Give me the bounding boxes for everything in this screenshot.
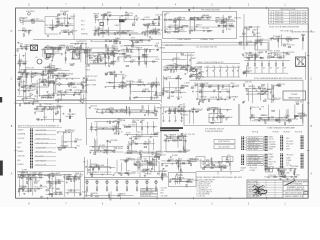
svg-text:VR2: VR2 [20, 43, 23, 45]
svg-text:100K 1W: 100K 1W [18, 156, 25, 158]
svg-text:C14 .022: C14 .022 [165, 29, 172, 31]
svg-text:12AX7: 12AX7 [140, 119, 145, 122]
svg-text:TP12 6.3V: TP12 6.3V [69, 177, 78, 179]
title signature scribble [253, 186, 264, 196]
svg-text:J12 TIP: J12 TIP [272, 168, 279, 170]
tone stack risers [103, 15, 120, 38]
tube V2 marker [188, 9, 190, 11]
labels under P5 [250, 167, 258, 172]
svg-text:GRN/YEL: GRN/YEL [24, 191, 31, 193]
small box mid [209, 114, 222, 123]
svg-text:Q3 MPSA: Q3 MPSA [210, 96, 218, 99]
svg-text:J12 TIP: J12 TIP [136, 48, 143, 50]
svg-text:VR2: VR2 [175, 65, 178, 67]
heater run wires [162, 43, 268, 51]
svg-text:Q3 MPSA: Q3 MPSA [154, 107, 162, 110]
preamp stage B [188, 15, 213, 33]
svg-text:8 OHM: 8 OHM [246, 41, 252, 43]
svg-text:TP12 6.3V: TP12 6.3V [61, 30, 70, 32]
svg-text:B+482V: B+482V [99, 145, 106, 147]
svg-text:VR2: VR2 [269, 159, 272, 161]
svg-text:47UF .1 400V: 47UF .1 400V [248, 149, 259, 151]
drive stage 1 [41, 45, 66, 62]
svg-text:GRN/YEL: GRN/YEL [32, 101, 39, 103]
svg-text:TP12 6.3V C31 22UF: TP12 6.3V C31 22UF [36, 152, 52, 154]
filter cap bank [204, 66, 241, 77]
note under revision table [269, 25, 300, 28]
svg-text:1N4007 .1 400V Q3 MPSA J12 TIP: 1N4007 .1 400V Q3 MPSA J12 TIP [197, 61, 224, 64]
svg-text:TP12 6.3V: TP12 6.3V [251, 107, 260, 109]
svg-text:C31: C31 [219, 66, 222, 68]
svg-text:220K 1N4007: 220K 1N4007 [36, 160, 46, 162]
svg-text:8 OHM: 8 OHM [110, 64, 116, 66]
connector P6 col g2 [280, 153, 283, 168]
pots labels [88, 172, 112, 174]
ribbon cable label [90, 127, 116, 129]
svg-text:.1 400V: .1 400V [131, 171, 138, 173]
cathode parts [59, 29, 77, 35]
svg-text:1N4007: 1N4007 [18, 151, 24, 153]
op-amp U2 lower left [30, 93, 33, 96]
plate load network [55, 13, 76, 26]
svg-text:12AX7: 12AX7 [252, 28, 257, 31]
svg-text:B+482V: B+482V [154, 19, 161, 21]
svg-text:C14 .022: C14 .022 [18, 138, 25, 140]
svg-text:V3: V3 [36, 57, 38, 59]
wire upper bus [33, 39, 162, 41]
svg-text:R23 2.2K: R23 2.2K [145, 30, 153, 32]
title block outline [247, 180, 308, 198]
svg-text:Q3 MPSA: Q3 MPSA [104, 149, 112, 152]
preamp stage C [215, 15, 241, 33]
jack box A [266, 169, 269, 173]
svg-text:GRN/YEL: GRN/YEL [181, 115, 188, 117]
reverb box net [169, 172, 199, 187]
svg-text:47UF: 47UF [86, 66, 90, 68]
svg-text:R23 2.2K: R23 2.2K [232, 85, 240, 87]
opto box [73, 51, 80, 59]
box fuse [214, 140, 235, 144]
svg-text:TP12 6.3V: TP12 6.3V [52, 73, 61, 75]
svg-text:R23 2.2K: R23 2.2K [132, 120, 140, 122]
svg-text:TP12 6.3V: TP12 6.3V [269, 161, 277, 163]
svg-text:100K 1W: 100K 1W [223, 18, 230, 20]
bottom small rows [161, 187, 168, 197]
svg-text:1. 220K 8 OHM GRN/YE: 1. 220K 8 OHM GRN/YE [197, 179, 216, 181]
connector P10 col g2 [301, 153, 304, 168]
left rail parts [17, 52, 35, 75]
connector P10 col g1 [301, 136, 304, 149]
svg-text:R23 2.2K: R23 2.2K [45, 25, 53, 27]
svg-text:12AX7: 12AX7 [258, 38, 263, 41]
svg-text:CR12: CR12 [269, 164, 273, 166]
output tubes net b [266, 51, 295, 59]
svg-text:P6-3 4.7K P6-3: P6-3 4.7K P6-3 [248, 181, 258, 183]
svg-text:1N4007: 1N4007 [67, 24, 73, 26]
svg-text:B+482V: B+482V [134, 162, 141, 164]
bottom vert x140 [139, 157, 141, 177]
svg-text:470: 470 [256, 68, 259, 70]
supply cap stacks [162, 107, 186, 122]
svg-text:TUBE CHASSIS: TUBE CHASSIS [177, 38, 192, 41]
svg-text:.1 400V 220K: .1 400V 220K [36, 147, 47, 149]
svg-text:+: + [240, 69, 241, 71]
svg-text:P6-3: P6-3 [34, 96, 38, 98]
bus coupling parts 2 [129, 38, 154, 45]
connector J2 col g2 [241, 155, 244, 165]
svg-text:VOL: VOL [115, 180, 118, 182]
svg-text:100K 1W: 100K 1W [121, 85, 128, 87]
svg-text:P6-3: P6-3 [137, 132, 141, 134]
svg-text:J12 TIP: J12 TIP [76, 140, 83, 142]
send box [86, 53, 106, 65]
svg-text:C14 .022: C14 .022 [202, 15, 209, 17]
svg-text:.1 400V: .1 400V [69, 16, 76, 18]
svg-text:R23 2.2K: R23 2.2K [269, 142, 276, 144]
pot TREBLE [93, 14, 99, 18]
svg-text:Q3 MPSA: Q3 MPSA [291, 165, 299, 168]
svg-text:1N4007: 1N4007 [196, 24, 202, 26]
svg-text:47UF: 47UF [24, 46, 28, 48]
front panel pots row [85, 180, 157, 192]
note under revision table 2 [291, 30, 315, 33]
svg-text:C14 .022: C14 .022 [67, 114, 74, 116]
svg-text:P6-3: P6-3 [34, 186, 38, 188]
svg-text:J12 TIP: J12 TIP [204, 165, 211, 167]
svg-text:P6-3: P6-3 [81, 20, 84, 22]
svg-text:8 OHM: 8 OHM [286, 160, 292, 162]
drive stage 2 [65, 41, 93, 66]
svg-text:LA REVISED PER ECO 4412: LA REVISED PER ECO 4412 [291, 30, 315, 33]
svg-text:GRN/YEL: GRN/YEL [81, 34, 88, 36]
lower-left grid a [20, 76, 40, 106]
mid gap net [51, 63, 74, 79]
svg-text:8 OHM: 8 OHM [149, 163, 155, 165]
svg-text:TP12 6.3V: TP12 6.3V [286, 155, 294, 157]
output tubes net a [242, 52, 265, 61]
right inner rail [305, 52, 307, 80]
svg-text:CR12: CR12 [175, 179, 179, 181]
transformer T1 [31, 45, 38, 51]
svg-text:+: + [235, 69, 236, 71]
svg-text:9. 4.7K C14: 9. 4.7K C14 [197, 196, 206, 198]
svg-text:R23 2.2K: R23 2.2K [274, 98, 282, 100]
small box fx [255, 40, 269, 50]
svg-text:100K 1W: 100K 1W [47, 188, 54, 190]
rectifier net [249, 105, 299, 125]
svg-text:.1 400V: .1 400V [184, 83, 191, 85]
op-amp U5 [176, 160, 179, 163]
svg-text:CR12: CR12 [261, 115, 265, 117]
svg-text:B+482V: B+482V [151, 134, 158, 136]
mid right small net [206, 107, 232, 124]
preamp pcb inner net d [124, 137, 165, 157]
svg-text:J12 TIP: J12 TIP [275, 54, 282, 56]
reverb box [169, 173, 197, 187]
svg-text:TP12 6.3V: TP12 6.3V [26, 67, 35, 69]
svg-text:47UF 220K 47UF: 47UF 220K 47UF [248, 196, 260, 198]
svg-text:C14 .022: C14 .022 [189, 29, 196, 31]
svg-text:470: 470 [277, 68, 280, 70]
heater wiring net [162, 75, 190, 99]
bias feed net [270, 84, 286, 101]
label bar TUBE SUPPLIES [160, 130, 179, 132]
frame zone ticks [14, 7, 309, 200]
svg-text:P6-3: P6-3 [114, 46, 118, 48]
svg-text:C14 .022: C14 .022 [32, 18, 39, 20]
op-amp U1A [59, 83, 62, 86]
svg-text:C14 .022 1N4007 100K 1W: C14 .022 1N4007 100K 1W [196, 46, 217, 48]
svg-text:R23 2.2K: R23 2.2K [196, 109, 204, 111]
P connector labels [205, 128, 224, 133]
op-amp U6 [203, 162, 206, 165]
svg-text:TP12 6.3V: TP12 6.3V [125, 13, 134, 15]
svg-text:TP12 6.3V: TP12 6.3V [145, 113, 154, 115]
svg-text:R23 2.2K: R23 2.2K [180, 134, 188, 136]
PI rails [162, 53, 240, 64]
above pots net [84, 158, 122, 177]
regulator box [166, 138, 184, 152]
svg-text:1N4007: 1N4007 [278, 118, 284, 120]
fx riser wire [243, 14, 245, 50]
preamp pcb inner net b [123, 119, 160, 139]
reverb driver net [18, 169, 48, 197]
svg-text:C14 .022: C14 .022 [161, 187, 168, 189]
tone stack network a [94, 13, 139, 26]
svg-text:+: + [215, 69, 216, 71]
svg-text:R23 2.2K: R23 2.2K [97, 53, 105, 55]
svg-text:1N4007: 1N4007 [212, 107, 218, 109]
wire step node [45, 17, 58, 35]
bias feed wires [272, 84, 274, 103]
PI dark cluster [189, 66, 205, 80]
svg-text:P2 PCB: P2 PCB [252, 132, 259, 134]
below tube V3 net [42, 64, 59, 75]
svg-text:1N4007: 1N4007 [127, 151, 133, 153]
long bus wires mid [16, 101, 161, 104]
svg-text:VR2: VR2 [228, 29, 231, 31]
output transformer T2 [296, 57, 306, 67]
svg-text:P6-3: P6-3 [66, 51, 70, 53]
power amp box [184, 80, 303, 125]
svg-text:1N4007: 1N4007 [241, 167, 247, 169]
tone stack lower rail [93, 33, 161, 35]
svg-text:GRN/YEL: GRN/YEL [183, 150, 190, 152]
svg-text:C31 22UF: C31 22UF [287, 52, 295, 54]
svg-text:Q3 MPSA: Q3 MPSA [148, 23, 156, 26]
svg-text:47UF: 47UF [259, 52, 263, 54]
left col parts upper [17, 42, 30, 51]
svg-text:CR12: CR12 [94, 109, 98, 111]
svg-text:8 OHM: 8 OHM [169, 96, 175, 98]
svg-text:VR2: VR2 [115, 39, 118, 41]
svg-text:100K 1W: 100K 1W [68, 191, 75, 193]
heater labels right [196, 46, 217, 48]
svg-text:C31: C31 [226, 66, 229, 68]
humdinger note [254, 77, 303, 80]
fsw rows left [18, 129, 26, 166]
svg-text:CR12 J12 TIP: CR12 J12 TIP [36, 165, 47, 167]
svg-text:VR2: VR2 [213, 90, 216, 92]
svg-text:12AX7: 12AX7 [267, 54, 272, 57]
svg-text:8 OHM: 8 OHM [250, 170, 256, 172]
connector header labels [252, 132, 303, 134]
svg-text:BLK CR12: BLK CR12 [36, 156, 44, 158]
svg-text:VOL: VOL [135, 180, 138, 182]
bus coupling parts [91, 37, 121, 44]
svg-text:C31: C31 [237, 66, 240, 68]
svg-text:47UF: 47UF [49, 81, 53, 83]
opamp network [54, 76, 88, 93]
send return upper net [89, 105, 163, 116]
svg-text:TP8 -3V AC SIG: TP8 -3V AC SIG [280, 30, 294, 33]
svg-text:CR12: CR12 [50, 183, 54, 185]
svg-text:GRN/YEL: GRN/YEL [144, 173, 151, 175]
svg-text:POWER: POWER [291, 94, 298, 96]
svg-text:.1 400V: .1 400V [183, 65, 190, 67]
mid network right [105, 70, 135, 88]
speaker jack dark cluster [280, 172, 283, 177]
label B+ rail [181, 55, 195, 57]
svg-text:J12 TIP: J12 TIP [112, 54, 119, 56]
svg-text:GRN/YEL: GRN/YEL [172, 58, 179, 60]
svg-text:P6-3: P6-3 [287, 115, 291, 117]
svg-text:12AX7: 12AX7 [259, 85, 264, 88]
svg-text:100K 1W: 100K 1W [169, 109, 176, 111]
svg-text:V1A 12AX7: V1A 12AX7 [26, 10, 35, 13]
below send labels [86, 66, 90, 72]
bottom mid-left net [140, 154, 166, 176]
svg-text:NOTES: UNLESS OTHERWISE SPECIF: NOTES: UNLESS OTHERWISE SPECIFIED ALL RE… [197, 176, 243, 179]
svg-text:TP12 6.3V: TP12 6.3V [20, 18, 29, 20]
rows P5-P6 g2 [269, 153, 277, 166]
svg-text:GRN/YEL: GRN/YEL [200, 97, 207, 99]
input lower net [18, 28, 32, 36]
wire B+ drop [73, 14, 75, 40]
svg-text:8 OHM: 8 OHM [69, 64, 75, 66]
svg-text:VR2: VR2 [262, 89, 265, 91]
volume network a [140, 14, 162, 28]
svg-text:P6-3: P6-3 [123, 125, 127, 127]
svg-text:C31 22UF: C31 22UF [35, 111, 43, 113]
svg-text:+: + [228, 69, 229, 71]
section vertical x86 [85, 43, 87, 118]
svg-text:C31: C31 [206, 66, 209, 68]
svg-text:C31 22UF: C31 22UF [128, 124, 136, 126]
svg-text:TUBE CHASSIS POWER AMP: TUBE CHASSIS POWER AMP [267, 127, 295, 130]
svg-text:P6-3: P6-3 [191, 161, 195, 163]
bottom mid drive [55, 89, 87, 104]
svg-text:TP12 6.3V: TP12 6.3V [215, 18, 224, 20]
svg-text:GRN/YEL: GRN/YEL [248, 86, 255, 88]
svg-text:P6-3: P6-3 [89, 172, 93, 174]
svg-text:4. P6-3 P6-3 C14 .0: 4. P6-3 P6-3 C14 .0 [197, 186, 212, 188]
svg-text:100K 1W: 100K 1W [155, 14, 162, 16]
preamp pcb inner net c [89, 138, 123, 155]
screen resistor net [242, 81, 273, 103]
svg-text:IEC 120V 60HZ: IEC 120V 60HZ [218, 147, 229, 149]
label footswitch assembly [18, 125, 60, 128]
svg-text:C31: C31 [213, 66, 216, 68]
box tr A [196, 157, 205, 162]
svg-text:470: 470 [249, 68, 252, 70]
svg-text:.1 400V: .1 400V [156, 151, 163, 153]
labels under J2 [241, 167, 247, 172]
svg-text:P6-3: P6-3 [191, 109, 195, 111]
ground spk1 [279, 179, 281, 180]
svg-text:100K 1W: 100K 1W [197, 77, 204, 79]
svg-text:4.7K .1 400V: 4.7K .1 400V [248, 164, 258, 166]
svg-text:VR2: VR2 [58, 180, 61, 182]
fx send network [238, 26, 264, 50]
svg-text:RED B+ 482V DC: RED B+ 482V DC [181, 55, 195, 57]
svg-text:47UF: 47UF [108, 72, 112, 74]
svg-text:B+482V: B+482V [96, 29, 103, 31]
svg-text:P6-3: P6-3 [76, 146, 80, 148]
preamp under-box labels [165, 45, 184, 47]
svg-text:C14 .022: C14 .022 [202, 28, 209, 30]
svg-text:TP12 6.3V: TP12 6.3V [250, 167, 258, 169]
svg-text:R23 2.2K: R23 2.2K [32, 84, 40, 86]
svg-text:5. VR2 P6-3 47: 5. VR2 P6-3 47 [197, 188, 208, 190]
output tube grid resistor bank [244, 61, 290, 74]
svg-text:10-2-95: 10-2-95 [291, 22, 297, 24]
svg-text:1N4007: 1N4007 [161, 175, 167, 177]
svg-text:47UF: 47UF [18, 62, 22, 64]
svg-text:J12 TIP: J12 TIP [191, 86, 198, 88]
power transformer box [283, 91, 306, 100]
ground spk3 [293, 179, 295, 180]
svg-text:8 OHM: 8 OHM [22, 169, 28, 171]
svg-text:CR12: CR12 [105, 30, 109, 32]
upper right drive net [118, 43, 166, 67]
svg-text:8 OHM: 8 OHM [264, 119, 270, 121]
svg-text:1N4007: 1N4007 [266, 89, 272, 91]
svg-text:VR2: VR2 [120, 109, 123, 111]
svg-text:100K 1W: 100K 1W [90, 105, 97, 107]
connector P5 col g1 [265, 136, 268, 151]
svg-text:VOL: VOL [125, 180, 128, 182]
svg-text:B+482V: B+482V [162, 171, 169, 173]
svg-text:C14 .022: C14 .022 [55, 69, 62, 71]
svg-text:1N4007: 1N4007 [18, 129, 24, 131]
svg-text:CR12: CR12 [165, 13, 169, 15]
svg-text:TP12 6.3V 1N4: TP12 6.3V 1N4 [142, 189, 153, 191]
svg-text:B+482V: B+482V [137, 166, 144, 168]
svg-text:CR12: CR12 [56, 19, 60, 21]
title left cell dividers [257, 180, 276, 198]
connector P13 pin column [30, 129, 33, 169]
svg-text:NOTE: J9 PCB REAR VIEW SHOWN: NOTE: J9 PCB REAR VIEW SHOWN [269, 25, 300, 28]
svg-text:100K 1W: 100K 1W [126, 49, 133, 51]
svg-text:CR12: CR12 [277, 84, 281, 86]
title right cells [283, 180, 309, 198]
revision table [269, 8, 309, 24]
svg-text:.1 400V: .1 400V [127, 145, 134, 147]
svg-text:C31 22UF: C31 22UF [161, 195, 168, 197]
svg-text:P6-3: P6-3 [167, 77, 171, 79]
svg-text:3. 220K C31 22UF: 3. 220K C31 22UF [197, 183, 211, 185]
svg-text:100K 1W: 100K 1W [295, 101, 302, 103]
svg-text:.1 400V: .1 400V [177, 172, 184, 174]
tone stack network b [93, 24, 138, 36]
svg-text:GRN/YEL: GRN/YEL [234, 18, 241, 20]
svg-text:R23 2.2K: R23 2.2K [291, 119, 299, 121]
preamp stage A [164, 13, 189, 33]
svg-text:12AX7: 12AX7 [199, 71, 204, 74]
svg-text:P6-3: P6-3 [81, 25, 84, 27]
svg-text:R23 2.2K: R23 2.2K [53, 52, 61, 54]
